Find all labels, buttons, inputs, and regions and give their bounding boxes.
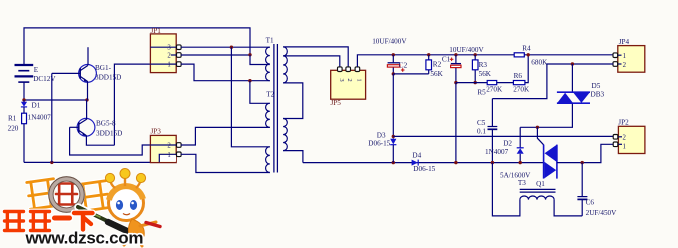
node T1 center-tap junction [248, 53, 251, 56]
node C1 branch on output line [454, 161, 457, 164]
svg-text:D4: D4 [412, 152, 421, 160]
svg-text:3DD15D: 3DD15D [96, 129, 122, 137]
secondary upper winding [283, 47, 287, 83]
svg-text:D2: D2 [503, 139, 512, 147]
wire JP4.2 to phase network [492, 64, 613, 99]
node R4/R6 junction [527, 53, 530, 56]
wire secondary top to JP5.2 [283, 47, 348, 67]
wire bottom rail right [554, 200, 582, 216]
wire secondary tap to JP5.3 [283, 56, 340, 67]
wire JP1.3 to T1 top [181, 46, 270, 48]
pin 1 [613, 142, 618, 147]
connector JP1 [150, 34, 176, 73]
transistor BG5-8 3DD15D [77, 118, 95, 136]
wire [150, 144, 176, 146]
svg-text:0.1: 0.1 [477, 127, 486, 135]
wire JP3.2 to T2 upper bottom [181, 127, 270, 145]
wire D5 bottom to D2 top [520, 104, 572, 128]
inductor T3 [520, 188, 556, 190]
pin 3 [338, 67, 343, 72]
wire JP2.2 line [393, 135, 613, 137]
wire JP1.1 to T1 bottom [181, 64, 270, 81]
wire R5-R6 [497, 82, 514, 84]
triac Q1 5A/1600V [543, 145, 545, 179]
transformer T2 lower winding [266, 147, 270, 173]
svg-text:D1: D1 [32, 102, 41, 110]
svg-text:3: 3 [167, 45, 171, 52]
node R3 top on HV rail [474, 53, 477, 56]
svg-text:56K: 56K [479, 70, 492, 78]
svg-text:D5: D5 [592, 82, 601, 90]
svg-text:270K: 270K [513, 85, 530, 93]
pin 2 [613, 135, 618, 140]
node D5/JP4.2 junction [571, 62, 574, 65]
svg-text:E: E [34, 66, 39, 74]
wire [24, 82, 88, 100]
node D2 on output line [519, 161, 522, 164]
wire C1 bottom to R5 [456, 82, 487, 84]
svg-text:2: 2 [167, 143, 171, 150]
svg-text:1: 1 [623, 143, 626, 150]
connector JP3 [150, 135, 176, 162]
svg-text:2: 2 [623, 135, 627, 142]
svg-text:5A/1600V: 5A/1600V [500, 171, 531, 179]
resistor R4 680K [514, 53, 524, 57]
capacitor C6 2UF/450V [581, 163, 583, 197]
svg-text:1: 1 [167, 62, 170, 69]
wire secondary lower-bottom to output [283, 151, 303, 163]
svg-text:1: 1 [167, 152, 170, 159]
svg-text:10UF/400V: 10UF/400V [372, 38, 407, 46]
svg-text:BG5-8: BG5-8 [96, 120, 116, 128]
resistor R1 220 [23, 124, 25, 163]
wire C1 vertical to output line [455, 83, 457, 163]
transformer T1 primary winding [266, 47, 270, 80]
node C2 bottom junction [392, 72, 395, 75]
diode D1 1N4007 [23, 100, 25, 102]
svg-text:2: 2 [623, 62, 627, 69]
wire JP1.3 branch to T2 lower top [231, 47, 269, 147]
svg-text:JP4: JP4 [619, 38, 630, 46]
svg-text:D06-15: D06-15 [368, 140, 390, 148]
node T1-bottom/T2-top junction [248, 79, 251, 82]
wire JP3.1 to T2 lower bottom [181, 154, 270, 172]
wire [150, 46, 176, 48]
svg-text:1: 1 [355, 78, 362, 81]
svg-text:R4: R4 [522, 45, 531, 53]
wire C2/D3 vertical [392, 74, 394, 139]
wire bottom-left rail [24, 161, 150, 163]
wire [24, 28, 250, 65]
resistor R6 270K [513, 81, 525, 85]
transformer core [273, 44, 275, 173]
node D3 on output line [392, 161, 395, 164]
node C1 top on HV rail [454, 53, 457, 56]
svg-text:56K: 56K [430, 70, 443, 78]
diode D3 D06-15 [390, 139, 396, 145]
connector JP2 [618, 126, 645, 153]
svg-text:3DD15D: 3DD15D [95, 74, 121, 82]
wire triac gate [537, 127, 543, 145]
wire JP5.1 to HV rail [357, 55, 613, 67]
svg-text:1N4007: 1N4007 [485, 148, 509, 156]
node C2 top on HV rail [392, 53, 395, 56]
svg-text:R1: R1 [8, 115, 17, 123]
wire bottom rail left [492, 163, 520, 216]
resistor R5 270K [487, 81, 497, 85]
svg-text:R6: R6 [514, 72, 523, 80]
node emitter junction [85, 98, 88, 101]
pin 2 [346, 67, 351, 72]
capacitor C5 0.1 [491, 99, 493, 127]
svg-text:T1: T1 [266, 37, 274, 45]
diode D4 D06-15 [412, 160, 418, 166]
node C6 branch on output line [581, 161, 584, 164]
pin 2 [613, 62, 618, 67]
svg-text:2: 2 [346, 78, 353, 81]
wire to T2 upper top [250, 81, 270, 104]
svg-text:R5: R5 [477, 88, 486, 96]
svg-text:2: 2 [167, 53, 171, 60]
watermark weiku text [5, 212, 93, 231]
svg-text:DB3: DB3 [591, 91, 605, 99]
svg-text:www.dzsc.com: www.dzsc.com [25, 229, 144, 248]
svg-text:DC12V: DC12V [33, 75, 56, 83]
svg-text:C6: C6 [586, 199, 595, 207]
node R2 top on HV rail [427, 53, 430, 56]
connector JP4 [618, 46, 645, 73]
wire R6 up to rail [525, 55, 528, 83]
svg-text:D06-15: D06-15 [413, 165, 435, 173]
svg-text:1N4007: 1N4007 [28, 114, 52, 122]
wire triac out to JP2.1 [557, 144, 613, 162]
svg-text:220: 220 [8, 125, 19, 133]
node C5 branch on output line [491, 161, 494, 164]
pin 1 [613, 53, 618, 58]
svg-text:2UF/450V: 2UF/450V [586, 209, 618, 217]
svg-text:R3: R3 [479, 61, 488, 69]
node C1 bottom junction [454, 81, 457, 84]
wire main output line [303, 162, 544, 164]
watermark logo [27, 169, 160, 247]
svg-text:JP3: JP3 [151, 128, 162, 136]
transistor BG1 3DD15D [79, 65, 97, 83]
svg-text:JP5: JP5 [331, 99, 342, 107]
node battery junction [22, 98, 25, 101]
node rail junction [50, 161, 53, 164]
svg-text:Q1: Q1 [536, 180, 545, 188]
wire secondary upper-bottom jog [283, 83, 303, 119]
connector JP5 [331, 70, 366, 99]
wire JP1.2 to T1 center tap [181, 54, 250, 56]
svg-text:T3: T3 [518, 179, 526, 187]
wire C2 bottom to R2 bottom [393, 73, 428, 75]
node triac gate junction [536, 126, 539, 129]
diac D5 DB3 [571, 64, 573, 92]
svg-text:680K: 680K [531, 58, 548, 66]
svg-text:C1: C1 [442, 55, 451, 63]
svg-text:R2: R2 [433, 60, 442, 68]
diode D2 1N4007 [519, 127, 521, 148]
secondary lower winding [283, 119, 287, 151]
svg-text:10UF/400V: 10UF/400V [449, 46, 484, 54]
svg-text:1: 1 [623, 53, 626, 60]
pin 1 [355, 67, 360, 72]
svg-text:JP2: JP2 [618, 119, 629, 127]
svg-text:270K: 270K [486, 85, 503, 93]
svg-text:D3: D3 [377, 131, 386, 139]
svg-text:JP1: JP1 [151, 27, 162, 35]
battery E DC12V [15, 65, 34, 82]
svg-text:BG1-: BG1- [95, 64, 112, 72]
transformer T2 upper winding [266, 103, 270, 127]
node D3/JP2.2 junction [392, 135, 395, 138]
svg-text:C5: C5 [477, 119, 486, 127]
node R3 bottom junction [474, 81, 477, 84]
node JP1.3/T1-top junction [230, 46, 233, 49]
